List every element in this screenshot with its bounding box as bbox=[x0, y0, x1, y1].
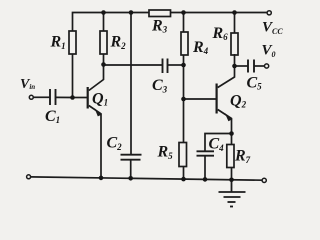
wire base node to Q2 bbox=[184, 98, 216, 100]
wire top supply rail bbox=[73, 13, 268, 33]
node R1 base junction bbox=[70, 95, 75, 100]
wire R6 bottom to collector node bbox=[234, 54, 236, 66]
resistor R2 bbox=[100, 31, 107, 54]
wire bottom ground rail bbox=[31, 177, 263, 180]
wire R2 branch bbox=[103, 13, 105, 66]
capacitor C5 bbox=[248, 60, 254, 73]
node emitter1 ground junction bbox=[99, 176, 104, 181]
wire R4 branch bbox=[183, 13, 185, 34]
node C2 ground junction bbox=[128, 176, 133, 181]
wire C5 to output terminal bbox=[255, 65, 265, 67]
capacitor C4 bbox=[197, 151, 215, 155]
wire R6 branch bbox=[234, 13, 236, 35]
resistor R6 bbox=[231, 33, 238, 55]
wire base wire Q1 bbox=[74, 97, 87, 99]
node output terminal V0 bbox=[265, 64, 269, 68]
wire R4 bottom through base node down to R5 bbox=[183, 55, 185, 144]
resistor R5 bbox=[179, 143, 187, 167]
resistor R7 bbox=[227, 145, 234, 168]
node input terminal Vin bbox=[29, 95, 33, 99]
node C2 top bbox=[129, 10, 134, 15]
ground bbox=[219, 180, 246, 207]
node Q1 collector junction bbox=[101, 62, 106, 67]
wire collector node to C5 bbox=[235, 65, 248, 67]
node R7 ground junction bbox=[229, 178, 234, 183]
node Q2 collector junction bbox=[232, 64, 237, 69]
node C3 R4 junction bbox=[181, 63, 186, 68]
wire collector Q1 node to C3 bbox=[104, 64, 163, 66]
wire R1 bottom to base node bbox=[72, 53, 74, 98]
node R6 top bbox=[232, 10, 237, 15]
node C4 ground junction bbox=[203, 177, 208, 182]
resistor R1 bbox=[69, 31, 76, 54]
capacitor C1 bbox=[50, 89, 56, 105]
transistor Q1 bbox=[87, 65, 104, 179]
node bottom-right terminal bbox=[262, 178, 266, 182]
node supply terminal Vcc bbox=[267, 11, 271, 15]
wire C3 to R4 node bbox=[168, 64, 184, 66]
wire C4 bottom to ground rail bbox=[204, 156, 206, 180]
node R5 ground junction bbox=[181, 177, 186, 182]
wire input terminal to C1 bbox=[34, 96, 50, 98]
node R4 top bbox=[181, 10, 186, 15]
node R2 top bbox=[101, 10, 106, 15]
capacitor C2 bbox=[121, 155, 142, 160]
wire C2 to ground rail bbox=[130, 160, 132, 179]
wire C1 to base node bbox=[56, 96, 74, 98]
transistor Q2 bbox=[216, 66, 235, 180]
resistor R4 bbox=[181, 32, 188, 55]
wire R5 bottom to ground rail bbox=[183, 167, 185, 180]
capacitor C3 bbox=[163, 59, 168, 74]
node C4 tap junction bbox=[229, 131, 234, 136]
wire C2 branch from rail bbox=[130, 13, 132, 155]
resistor R3 bbox=[149, 10, 171, 17]
node bottom-left terminal bbox=[27, 175, 31, 179]
node Q2 base junction bbox=[181, 97, 186, 102]
wire C4 bypass bracket bbox=[205, 134, 232, 152]
